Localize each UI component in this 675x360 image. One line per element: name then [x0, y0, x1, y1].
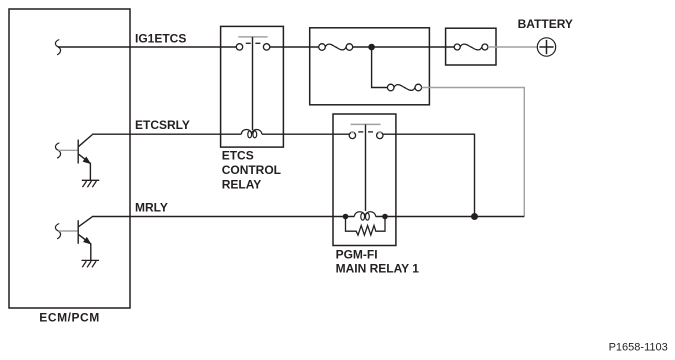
fuse F1: [319, 44, 353, 51]
svg-text:RELAY: RELAY: [222, 177, 262, 191]
svg-text:ECM/PCM: ECM/PCM: [39, 311, 100, 325]
transistor Q2 emitter arrow: [84, 238, 91, 244]
relay K1 contact terminal left: [236, 44, 242, 50]
fuse F2: [387, 84, 421, 91]
wire battery feed (gray): [488, 46, 537, 48]
node coil right dot: [382, 214, 388, 220]
wire fuse F2 feed (gray): [422, 88, 525, 217]
wire ETCSRLY row: [92, 133, 241, 135]
transistor Q2 base squiggle: [55, 224, 60, 239]
connector squiggle IG1ETCS: [55, 40, 60, 55]
wire K2 coil to node: [376, 216, 475, 218]
transistor Q1 base squiggle: [55, 143, 60, 158]
relay K1 box (ETCS CONTROL RELAY): [221, 26, 284, 147]
ground G2: [82, 260, 100, 267]
relay K2 box (PGM-FI MAIN RELAY 1): [333, 114, 396, 246]
ground G1: [82, 180, 100, 187]
relay K1 armature bar (gray): [238, 36, 267, 38]
relay K2 actuator line: [365, 124, 367, 211]
relay K2 contact dashes: [358, 131, 373, 133]
relay K2 contact terminal left: [349, 132, 355, 138]
transistor Q2: [78, 217, 92, 261]
relay K1 coil: [241, 129, 262, 137]
wire fuse F1 to battery fuse: [353, 46, 455, 48]
relay K1 contact dashes: [246, 42, 261, 44]
svg-text:BATTERY: BATTERY: [518, 17, 573, 31]
svg-text:MRLY: MRLY: [135, 200, 168, 214]
transistor Q2 base wire (gray): [58, 230, 77, 232]
transistor Q1: [78, 135, 92, 181]
svg-text:ETCSRLY: ETCSRLY: [135, 118, 190, 132]
relay K1 actuator line: [252, 37, 254, 130]
svg-text:CONTROL: CONTROL: [222, 163, 281, 177]
node coil left dot: [343, 214, 349, 220]
svg-text:MAIN RELAY 1: MAIN RELAY 1: [336, 261, 420, 275]
transistor Q1 emitter arrow: [83, 157, 90, 163]
battery fuse box: [446, 28, 496, 65]
relay K1 contact terminal right: [263, 44, 269, 50]
wire junction down to fuse F2: [372, 47, 388, 88]
wire K1 contact to fuse box: [270, 46, 319, 48]
wire feed corner to node: [475, 216, 525, 218]
relay K2 contact tip marks (gray): [351, 132, 382, 134]
svg-text:PGM-FI: PGM-FI: [336, 247, 378, 261]
transistor Q1 base wire (gray): [58, 149, 77, 151]
svg-text:P1658-1103: P1658-1103: [609, 342, 668, 354]
relay K2 contact terminal right: [377, 132, 383, 138]
relay K2 armature bar (gray): [351, 123, 381, 125]
svg-text:ETCS: ETCS: [222, 149, 254, 163]
wire K2 contact output: [383, 134, 475, 216]
svg-text:IG1ETCS: IG1ETCS: [135, 32, 186, 46]
wire MRLY row: [92, 216, 354, 218]
node junction dot top: [368, 44, 375, 51]
battery fuse F3: [454, 44, 488, 50]
fuse box: [310, 28, 430, 105]
battery BT1: [537, 38, 555, 56]
ECM/PCM box: [9, 9, 130, 308]
node junction dot bottom: [471, 213, 478, 220]
wire IG1ETCS row: [58, 46, 236, 48]
resistor R1 (parallel with K2 coil): [346, 217, 386, 236]
wire K1 coil to relay K2: [262, 133, 350, 135]
relay K2 coil: [354, 212, 375, 221]
